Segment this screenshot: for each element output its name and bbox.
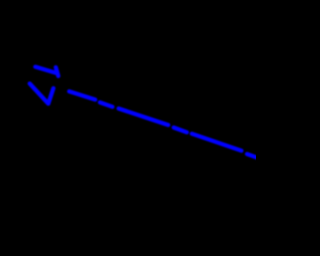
arrowhead upper barb stroke	[35, 67, 57, 74]
wire dash 4	[174, 128, 187, 133]
wire dash 1	[69, 91, 95, 99]
wire dash 2	[100, 102, 113, 106]
arrowhead upper barb hook stroke	[56, 67, 59, 76]
arrowhead lower V stroke	[30, 84, 54, 104]
wire dash 5	[192, 134, 242, 151]
wire dash 3	[119, 109, 169, 126]
wire dash 6	[247, 154, 259, 158]
